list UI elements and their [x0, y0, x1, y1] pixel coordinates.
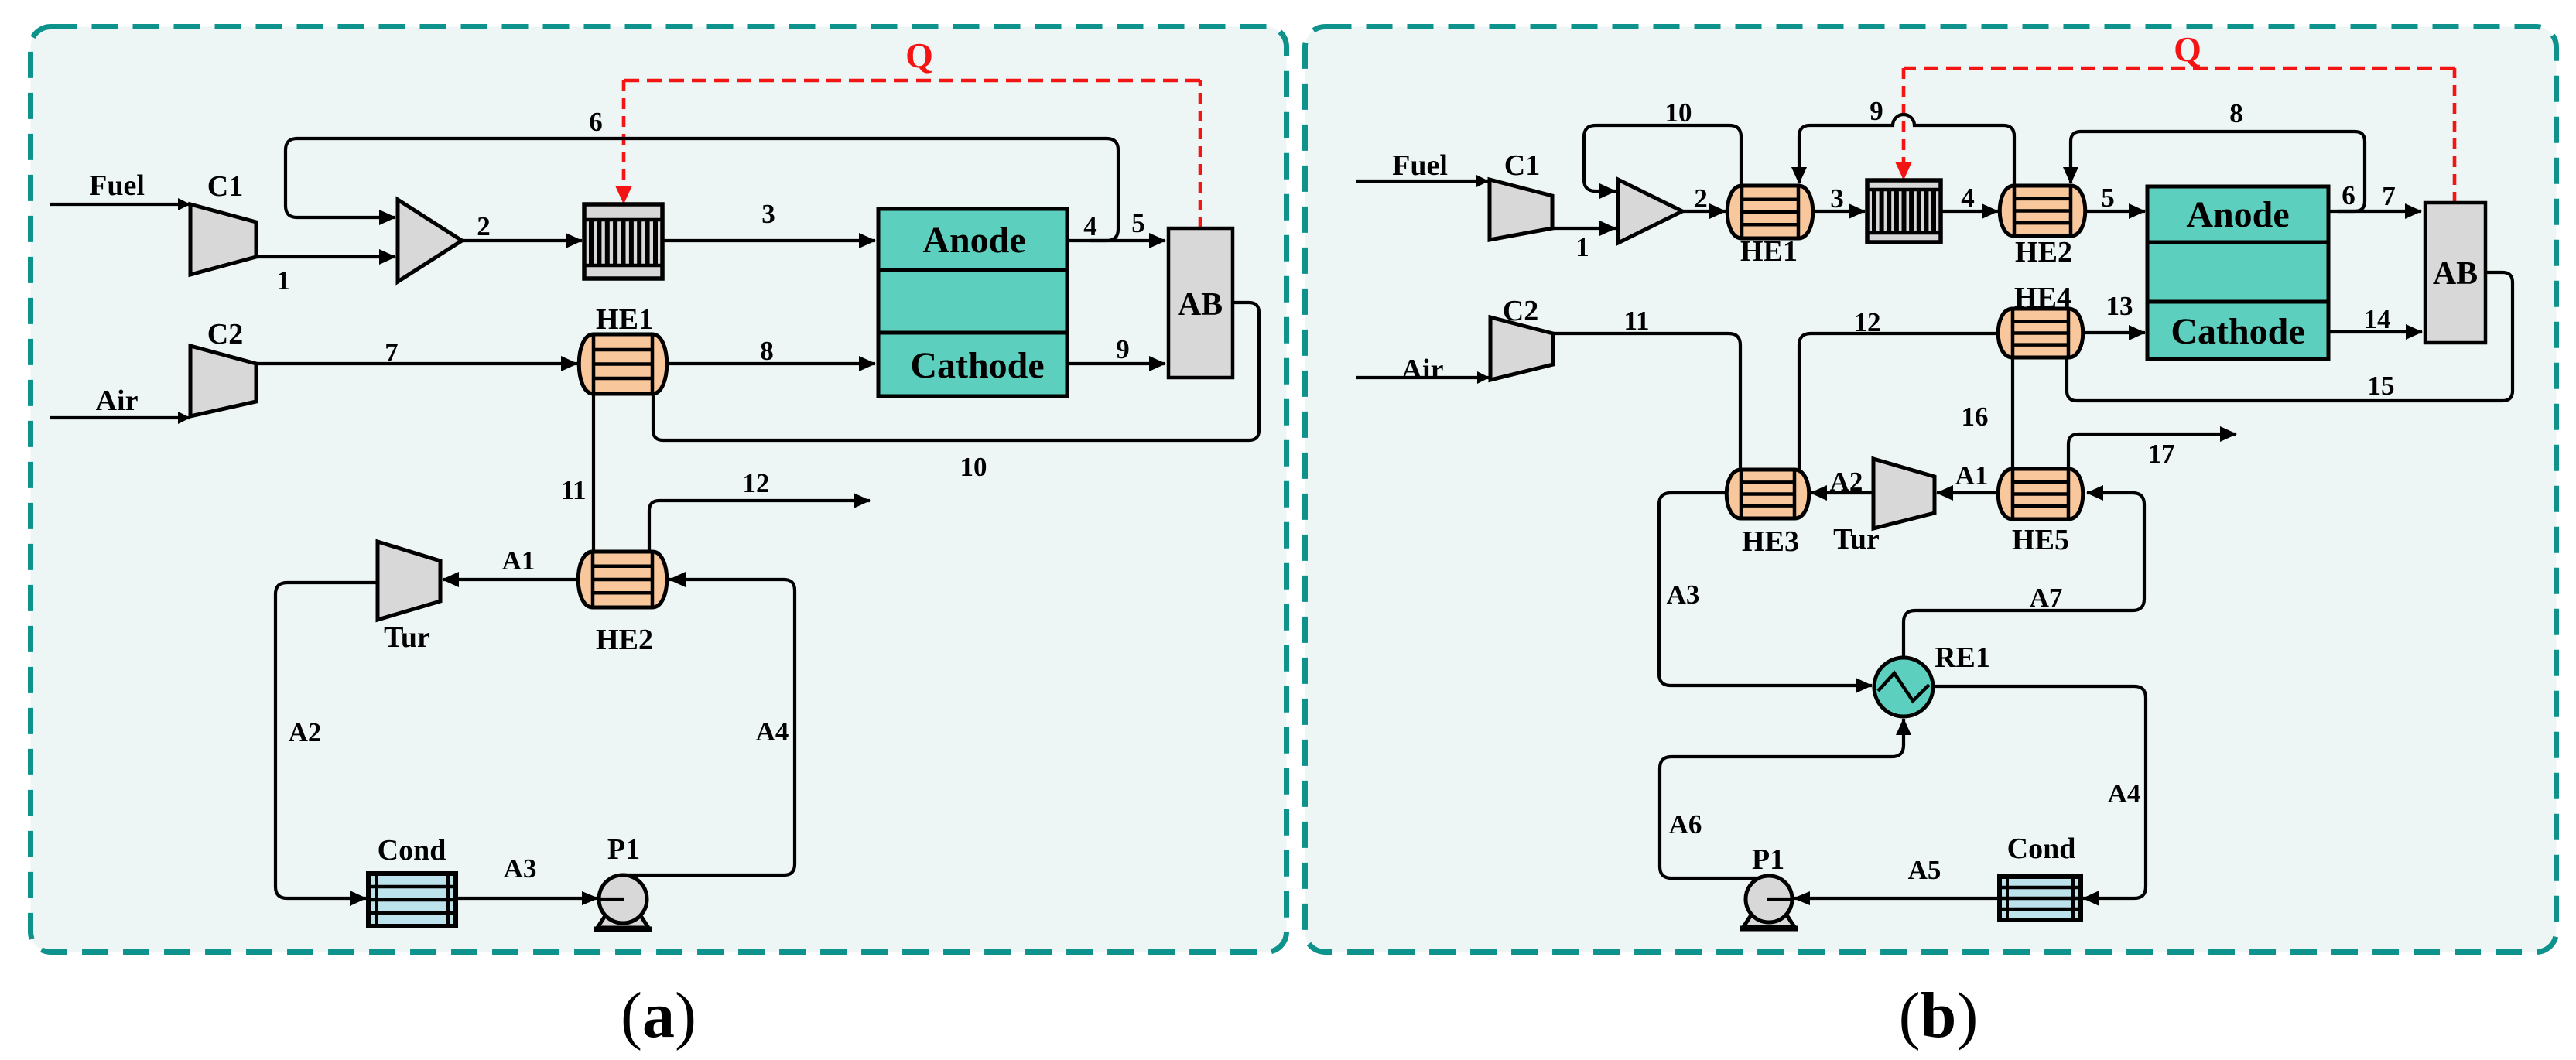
label Air (b)	[1401, 354, 1444, 386]
wire 3 : HE1 to reformer (b)	[1812, 210, 1865, 213]
svg-text:A2: A2	[1830, 467, 1863, 497]
wire 7 : C2 to HE1 (a)	[256, 362, 577, 365]
wire Fuel inlet (a)	[50, 203, 190, 206]
svg-text:12: 12	[743, 468, 770, 498]
wire 15 : AB to HE4 (b)	[2067, 272, 2513, 401]
heat exchanger HE2 (b)	[2000, 186, 2085, 236]
reformer (b)	[1867, 180, 1941, 242]
wire 8 : HE1 to Cathode (a)	[666, 362, 875, 365]
svg-text:A5: A5	[1908, 855, 1941, 885]
mixer (a)	[398, 200, 462, 282]
wire 4 : reformer to HE2 (b)	[1941, 210, 1998, 213]
wire 13 : HE4 to Cathode (b)	[2082, 331, 2145, 334]
wire 11 : C2 to HE3 (b)	[1553, 333, 1740, 470]
label Q (b)	[2174, 29, 2201, 69]
label Fuel (b)	[1392, 149, 1448, 182]
label C1 (a)	[207, 170, 243, 203]
label Air (a)	[96, 385, 139, 417]
label AB (b)	[2433, 256, 2478, 292]
arrowhead A5 into P1 (b)	[1793, 891, 1810, 905]
svg-text:3: 3	[1830, 183, 1844, 214]
label 1 (a)	[276, 265, 290, 296]
svg-text:(a): (a)	[621, 980, 696, 1051]
svg-text:A1: A1	[502, 545, 535, 576]
turbine Tur (a)	[378, 542, 440, 620]
svg-text:A4: A4	[2108, 778, 2141, 809]
label A6 (b)	[1669, 809, 1702, 839]
wire A4 : RE1 to Cond (b)	[1933, 686, 2146, 898]
svg-text:HE1: HE1	[596, 303, 653, 336]
svg-text:13: 13	[2106, 291, 2133, 321]
label A7 (b)	[2030, 583, 2063, 613]
label Fuel (a)	[89, 169, 145, 202]
svg-text:P1: P1	[1752, 843, 1784, 876]
svg-text:HE1: HE1	[1740, 235, 1798, 268]
label Q (a)	[905, 36, 933, 75]
label A3 (b)	[1667, 580, 1700, 610]
label 10 (a)	[960, 452, 987, 482]
svg-text:4: 4	[1961, 183, 1975, 213]
heat exchanger HE1 (a)	[579, 334, 667, 394]
wire 11 : HE1 to HE2 (a)	[592, 394, 595, 552]
label 9 (a)	[1116, 334, 1130, 364]
label Anode (a)	[922, 220, 1025, 261]
label HE4 (b)	[2014, 282, 2071, 314]
wire A2 : Tur to Cond (a)	[275, 583, 378, 898]
svg-text:HE3: HE3	[1742, 525, 1799, 558]
fuel cell stack (a)	[878, 209, 1067, 396]
wire A2 : Tur to HE3 (b)	[1811, 491, 1873, 494]
label 2 (a)	[477, 211, 491, 241]
svg-text:Cathode: Cathode	[2171, 311, 2304, 352]
svg-text:A7: A7	[2030, 583, 2063, 613]
wire 2 : mixer to HE1 (b)	[1682, 210, 1726, 213]
svg-text:Anode: Anode	[922, 220, 1025, 261]
panel (b) dashed border box	[1305, 27, 2557, 952]
svg-text:5: 5	[1131, 208, 1145, 238]
wire 12 : HE2 outlet (a)	[649, 501, 870, 552]
wire 16 : HE4 to HE5 (b)	[2011, 357, 2014, 469]
svg-text:Tur: Tur	[1833, 523, 1880, 556]
svg-text:14: 14	[2364, 304, 2391, 334]
wire A7 : RE1 to HE5 (b)	[1904, 493, 2144, 658]
wire 9 : Cathode to AB (a)	[1067, 362, 1165, 365]
fuel cell stack (b)	[2147, 186, 2328, 359]
label 5 (b)	[2101, 183, 2115, 213]
wire 8 : junction down to HE2 (b)	[2071, 132, 2365, 211]
wire 3 : reformer to Anode (a)	[662, 239, 875, 242]
svg-text:A6: A6	[1669, 809, 1702, 839]
wire A6 : P1 to RE1 (b)	[1660, 719, 1904, 878]
svg-text:Cond: Cond	[378, 834, 446, 867]
label Cond (a)	[378, 834, 446, 867]
svg-text:Q: Q	[905, 36, 933, 75]
svg-text:HE2: HE2	[2015, 236, 2072, 268]
svg-text:C1: C1	[1504, 149, 1540, 182]
label A4 (b)	[2108, 778, 2141, 809]
wire 17 : HE5 outlet (b)	[2068, 434, 2236, 469]
label HE2 (b)	[2015, 236, 2072, 268]
label A2 (a)	[289, 717, 322, 747]
label 7 (b)	[2382, 181, 2396, 211]
svg-text:AB: AB	[2433, 256, 2478, 292]
svg-text:10: 10	[960, 452, 987, 482]
svg-text:7: 7	[2382, 181, 2396, 211]
label Tur (b)	[1833, 523, 1880, 556]
mixer (b)	[1618, 180, 1682, 243]
label Cond (b)	[2007, 833, 2076, 865]
condenser Cond (b)	[2000, 877, 2081, 920]
svg-text:5: 5	[2101, 183, 2115, 213]
label C1 (b)	[1504, 149, 1540, 182]
heat stream Q dashed line (b)	[1904, 68, 2455, 203]
label 8 (a)	[760, 336, 774, 366]
wire A4 : P1 to HE2 (a)	[625, 580, 795, 875]
pump P1 (b)	[1740, 876, 1798, 928]
label HE1 (a)	[596, 303, 653, 336]
wire 9 : HE2 top to HE1 with jump over Q (b)	[1799, 115, 2014, 186]
wire 14 : Cathode to AB (b)	[2328, 330, 2422, 333]
svg-text:AB: AB	[1178, 287, 1223, 323]
heat exchanger HE3 (b)	[1726, 470, 1809, 518]
reheater RE1 (b)	[1874, 658, 1933, 716]
label 8 (b)	[2229, 98, 2243, 128]
svg-text:1: 1	[276, 265, 290, 296]
afterburner AB (b)	[2425, 203, 2485, 343]
svg-text:HE2: HE2	[596, 624, 653, 656]
svg-text:RE1: RE1	[1935, 641, 1990, 674]
pump P1 (a)	[594, 875, 652, 929]
label 4 (b)	[1961, 183, 1975, 213]
wire 6 : recycle loop junction to mixer (a)	[286, 138, 1118, 241]
wire A3 : HE3 to RE1 (b)	[1659, 493, 1872, 686]
wire 10 : HE1 recycle to mixer (b)	[1584, 125, 1741, 191]
svg-text:12: 12	[1854, 307, 1881, 337]
label (b) caption	[1899, 980, 1979, 1051]
label 6 (b)	[2342, 180, 2355, 210]
svg-text:17: 17	[2148, 439, 2175, 469]
heat exchanger HE5 (b)	[1998, 469, 2083, 519]
svg-text:11: 11	[560, 475, 586, 505]
label 17 (b)	[2148, 439, 2175, 469]
label P1 (b)	[1752, 843, 1784, 876]
condenser Cond (a)	[368, 874, 456, 926]
label 10 (b)	[1665, 97, 1692, 128]
svg-text:8: 8	[2229, 98, 2243, 128]
label 3 (a)	[761, 199, 775, 229]
label A1 (b)	[1955, 460, 1989, 491]
label 11 (b)	[1623, 306, 1649, 336]
svg-text:HE5: HE5	[2012, 524, 2069, 556]
svg-text:3: 3	[761, 199, 775, 229]
svg-text:15: 15	[2368, 371, 2395, 401]
label Cathode (a)	[910, 345, 1044, 386]
label P1 (a)	[607, 833, 640, 866]
wire A3 : Cond to P1 (a)	[456, 897, 624, 900]
svg-text:P1: P1	[607, 833, 640, 866]
svg-text:8: 8	[760, 336, 774, 366]
label 11 (a)	[560, 475, 586, 505]
label (a) caption	[621, 980, 696, 1051]
wire 6-7 : Anode to AB (b)	[2328, 210, 2421, 213]
svg-text:6: 6	[2342, 180, 2355, 210]
label 2 (b)	[1694, 183, 1708, 214]
svg-text:Air: Air	[96, 385, 139, 417]
svg-text:Cathode: Cathode	[910, 345, 1044, 386]
wire 2 : mixer to reformer (a)	[462, 239, 582, 242]
label 15 (b)	[2368, 371, 2395, 401]
heat stream Q dashed line (a)	[624, 80, 1200, 228]
label 6 (a)	[589, 107, 603, 137]
label 14 (b)	[2364, 304, 2391, 334]
svg-text:Anode: Anode	[2186, 194, 2289, 235]
compressor C1 (a)	[190, 204, 256, 275]
svg-text:7: 7	[385, 337, 399, 368]
panel (a) dashed border box	[31, 27, 1287, 952]
svg-text:Q: Q	[2174, 29, 2201, 69]
svg-text:A1: A1	[1955, 460, 1989, 491]
svg-text:C2: C2	[1503, 295, 1538, 327]
label 1 (b)	[1575, 232, 1589, 262]
wire 4-5 : Anode to AB (a)	[1067, 239, 1165, 242]
label Tur (a)	[384, 621, 430, 654]
label HE5 (b)	[2012, 524, 2069, 556]
label 12 (a)	[743, 468, 770, 498]
compressor C2 (b)	[1490, 317, 1553, 380]
wire 1 : C1 to mixer (a)	[256, 255, 395, 258]
svg-text:2: 2	[477, 211, 491, 241]
label A3 (a)	[504, 853, 537, 884]
wire A5 : Cond to P1 (b)	[1769, 897, 2000, 900]
label 4 (a)	[1083, 211, 1097, 241]
label Cathode (b)	[2171, 311, 2304, 352]
svg-text:11: 11	[1623, 306, 1649, 336]
svg-text:9: 9	[1116, 334, 1130, 364]
svg-text:Fuel: Fuel	[89, 169, 145, 202]
label HE1 (b)	[1740, 235, 1798, 268]
label 13 (b)	[2106, 291, 2133, 321]
svg-text:9: 9	[1870, 96, 1883, 126]
svg-text:C1: C1	[207, 170, 243, 203]
label A2 (b)	[1830, 467, 1863, 497]
wire 5 : HE2 to Anode (b)	[2085, 210, 2145, 213]
svg-text:1: 1	[1575, 232, 1589, 262]
svg-text:Cond: Cond	[2007, 833, 2076, 865]
heat stream Q arrowhead (a)	[615, 186, 632, 204]
wire A1 : HE2 to Tur (a)	[443, 578, 579, 581]
svg-text:HE4: HE4	[2014, 282, 2071, 314]
wire Air inlet (b)	[1356, 376, 1489, 379]
afterburner AB (a)	[1168, 228, 1233, 378]
heat stream Q arrowhead (b)	[1895, 162, 1912, 180]
svg-text:6: 6	[589, 107, 603, 137]
svg-text:C2: C2	[207, 318, 243, 350]
svg-text:A4: A4	[756, 716, 789, 747]
svg-text:A2: A2	[289, 717, 322, 747]
svg-text:4: 4	[1083, 211, 1097, 241]
label 7 (a)	[385, 337, 399, 368]
label C2 (b)	[1503, 295, 1538, 327]
heat exchanger HE2 (a)	[578, 552, 667, 607]
arrowhead A3 into P1 (a)	[582, 891, 599, 905]
svg-text:A3: A3	[1667, 580, 1700, 610]
wire Fuel inlet (b)	[1356, 180, 1488, 183]
wire Air inlet (a)	[50, 416, 190, 419]
svg-text:Fuel: Fuel	[1392, 149, 1448, 182]
label A5 (b)	[1908, 855, 1941, 885]
label AB (a)	[1178, 287, 1223, 323]
wire A1 : HE5 to Tur (b)	[1937, 491, 1999, 494]
turbine Tur (b)	[1873, 459, 1935, 528]
label 3 (b)	[1830, 183, 1844, 214]
label 5 (a)	[1131, 208, 1145, 238]
svg-text:2: 2	[1694, 183, 1708, 214]
svg-text:Tur: Tur	[384, 621, 430, 654]
label 16 (b)	[1962, 402, 1989, 432]
svg-text:16: 16	[1962, 402, 1989, 432]
label C2 (a)	[207, 318, 243, 350]
heat exchanger HE4 (b)	[1998, 309, 2083, 357]
label Anode (b)	[2186, 194, 2289, 235]
label 12 (b)	[1854, 307, 1881, 337]
compressor C1 (b)	[1490, 180, 1552, 240]
wire 1 : C1 to mixer (b)	[1552, 227, 1616, 230]
label HE3 (b)	[1742, 525, 1799, 558]
label A1 (a)	[502, 545, 535, 576]
svg-text:Air: Air	[1401, 354, 1444, 386]
reformer (a)	[584, 204, 662, 279]
svg-text:10: 10	[1665, 97, 1692, 128]
svg-text:(b): (b)	[1899, 980, 1979, 1051]
label 9 (b)	[1870, 96, 1883, 126]
compressor C2 (a)	[190, 346, 256, 416]
label RE1 (b)	[1935, 641, 1990, 674]
svg-text:A3: A3	[504, 853, 537, 884]
label HE2 (a)	[596, 624, 653, 656]
label A4 (a)	[756, 716, 789, 747]
heat exchanger HE1 (b)	[1727, 186, 1813, 238]
wire 12 : HE3 to HE4 (b)	[1799, 333, 1999, 470]
wire 10 : AB to HE1 (a)	[653, 303, 1259, 440]
